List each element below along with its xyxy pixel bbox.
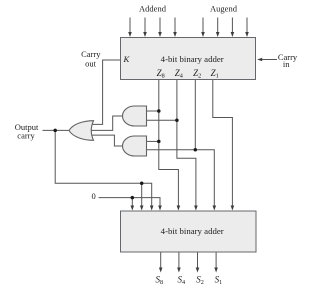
svg-text:S4: S4 [178,275,186,287]
svg-text:Carry: Carry [81,49,101,59]
svg-text:0: 0 [92,191,96,201]
svg-text:Augend: Augend [210,4,238,14]
svg-text:carry: carry [17,131,35,141]
svg-text:Addend: Addend [139,4,167,14]
svg-text:in: in [283,59,290,69]
svg-text:4-bit binary adder: 4-bit binary adder [161,54,224,64]
svg-text:S1: S1 [215,275,223,287]
svg-text:S8: S8 [156,275,164,287]
svg-text:out: out [85,59,97,69]
svg-text:4-bit binary adder: 4-bit binary adder [161,226,224,236]
svg-text:S2: S2 [196,275,204,287]
